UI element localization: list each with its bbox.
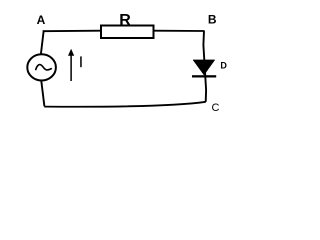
svg-text:A: A <box>37 13 46 27</box>
diode D triangle (anode) <box>193 60 215 75</box>
wire bottom horizontal (slight bow, left corner to C corner) <box>44 102 206 107</box>
svg-text:C: C <box>212 102 220 114</box>
wire left vertical upper (A corner to source top) <box>41 30 44 55</box>
svg-text:D: D <box>220 60 227 70</box>
resistor R <box>101 26 154 39</box>
wire top-right horizontal (resistor to B) <box>154 30 205 32</box>
wire left vertical lower (source bottom to bottom corner) <box>41 80 44 106</box>
current arrow head <box>68 49 74 56</box>
AC source V1 <box>27 54 56 80</box>
diode D cathode bar <box>192 75 216 77</box>
current arrow shaft <box>70 55 72 82</box>
wire right vertical (B to C through diode) <box>203 31 206 102</box>
current label I <box>80 56 82 67</box>
svg-text:B: B <box>208 13 217 27</box>
wire top-left horizontal (A to resistor) <box>43 30 101 33</box>
AC source sine symbol <box>36 65 52 71</box>
